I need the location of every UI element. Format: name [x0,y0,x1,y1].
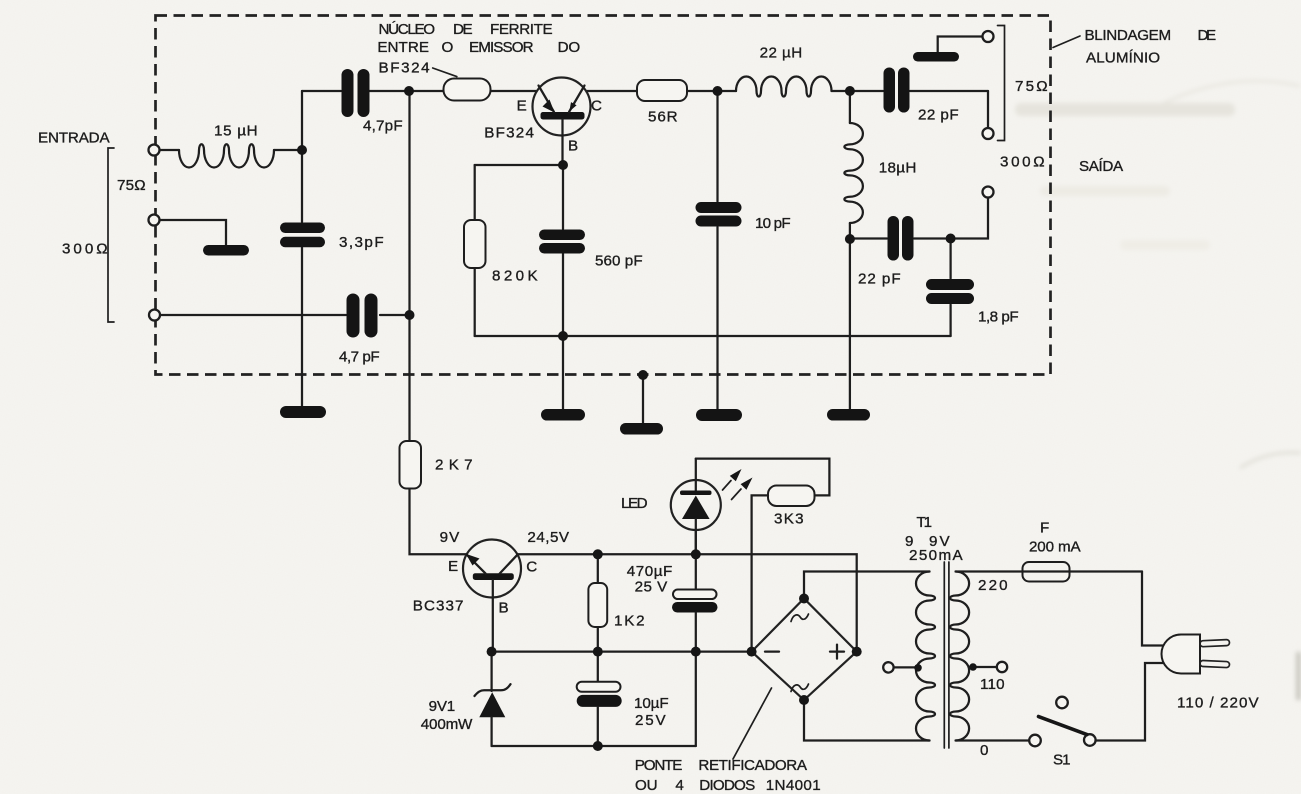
svg-text:110 / 220V: 110 / 220V [1177,695,1259,712]
svg-text:300Ω: 300Ω [62,241,108,258]
svg-text:F: F [1040,520,1050,537]
svg-text:10 pF: 10 pF [755,215,791,232]
svg-text:2K7: 2K7 [435,457,473,474]
svg-text:1N4001: 1N4001 [766,777,821,794]
svg-text:B: B [568,138,579,155]
svg-text:4,7 pF: 4,7 pF [339,349,380,366]
svg-text:18µH: 18µH [879,160,917,177]
svg-text:820K: 820K [492,268,538,285]
svg-text:ALUMÍNIO: ALUMÍNIO [1086,50,1161,67]
svg-text:LED: LED [621,495,648,512]
svg-text:E: E [448,558,459,575]
svg-text:3,3pF: 3,3pF [339,234,384,251]
svg-text:S1: S1 [1053,752,1071,769]
svg-text:ENTRADA: ENTRADA [38,130,110,147]
svg-text:250mA: 250mA [909,547,963,564]
svg-text:1,8 pF: 1,8 pF [978,309,1019,326]
svg-text:0: 0 [980,742,989,759]
svg-text:75Ω: 75Ω [117,177,146,194]
svg-text:ENTRE: ENTRE [377,39,429,56]
svg-text:BF324: BF324 [484,125,534,142]
svg-text:1K2: 1K2 [614,613,645,630]
svg-text:BF324: BF324 [379,60,431,77]
svg-text:E: E [517,98,528,115]
svg-text:75Ω: 75Ω [1015,78,1048,95]
svg-text:O: O [442,39,454,56]
svg-text:FERRITE: FERRITE [490,21,553,38]
svg-text:24,5V: 24,5V [527,529,569,546]
svg-text:B: B [499,600,510,617]
svg-text:OU: OU [635,777,658,794]
svg-text:C: C [591,98,602,115]
svg-text:9V: 9V [440,529,460,546]
svg-text:25V: 25V [635,712,666,729]
svg-text:9V1: 9V1 [429,698,456,715]
svg-text:15 µH: 15 µH [214,123,258,140]
svg-text:110: 110 [980,676,1005,693]
svg-text:DO: DO [558,39,581,56]
svg-text:560 pF: 560 pF [595,253,643,270]
svg-text:DIODOS: DIODOS [699,777,755,794]
svg-text:4: 4 [675,777,684,794]
svg-text:SAÍDA: SAÍDA [1079,158,1124,175]
svg-text:4,7pF: 4,7pF [363,118,403,135]
svg-text:220: 220 [978,577,1008,594]
svg-text:PONTE: PONTE [635,757,683,774]
svg-text:25 V: 25 V [635,579,668,596]
svg-text:10µF: 10µF [634,695,669,712]
svg-text:NÚCLEO: NÚCLEO [379,21,436,38]
svg-text:470µF: 470µF [627,563,673,580]
svg-text:22 pF: 22 pF [918,107,959,124]
svg-text:22 pF: 22 pF [858,271,901,288]
svg-text:300Ω: 300Ω [1000,154,1045,171]
svg-text:3K3: 3K3 [774,511,804,528]
svg-text:BLINDAGEM: BLINDAGEM [1085,27,1172,44]
svg-text:400mW: 400mW [421,716,473,733]
svg-text:DE: DE [1198,27,1217,44]
svg-text:22 µH: 22 µH [760,45,803,62]
svg-text:C: C [526,559,537,576]
svg-text:200 mA: 200 mA [1029,539,1081,556]
svg-text:BC337: BC337 [413,598,464,615]
svg-text:DE: DE [453,21,473,38]
svg-text:T1: T1 [917,514,933,531]
svg-text:RETIFICADORA: RETIFICADORA [698,757,807,774]
svg-text:EMISSOR: EMISSOR [469,39,534,56]
svg-text:56R: 56R [648,109,678,126]
